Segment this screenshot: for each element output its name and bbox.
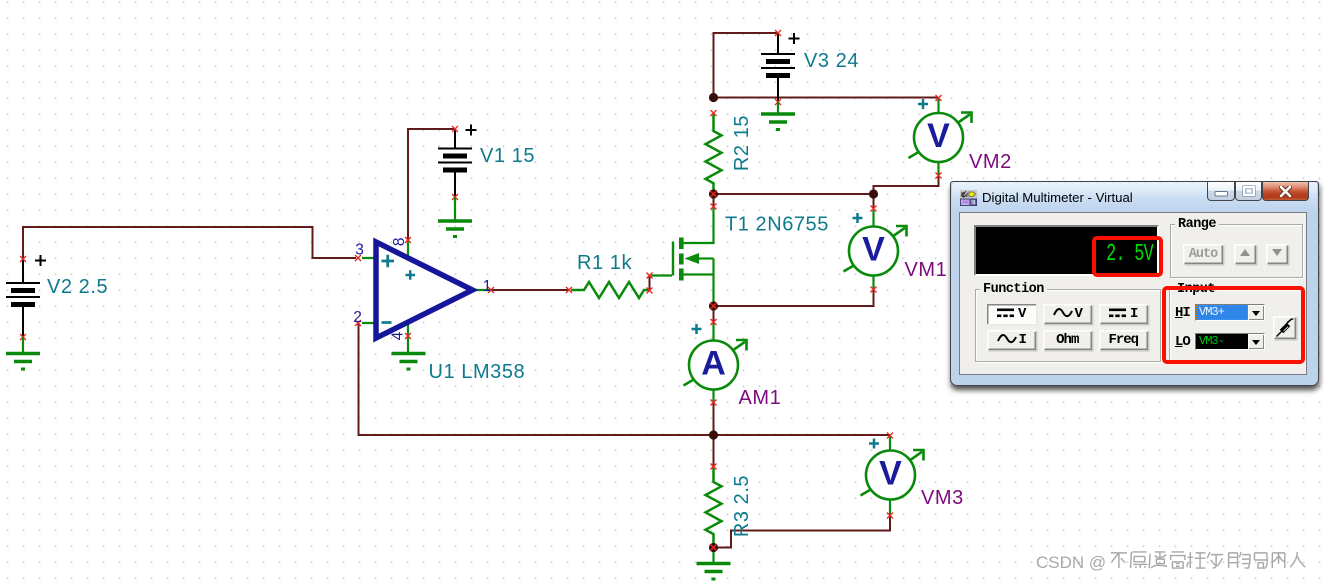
wire op-amp pin1 to R1 [491,289,569,291]
wire T1 drain to node E [713,194,715,207]
ground of U1 pin4 [392,354,426,370]
svg-text:3: 3 [355,242,364,259]
node F junction [869,189,878,198]
ground of V1 [438,197,472,237]
ground of V2 [6,337,40,369]
label T1 2N6755 [725,214,829,236]
node S junction [709,301,718,310]
svg-text:AM1: AM1 [739,387,782,409]
label R2 15 [731,115,753,171]
svg-text:R2 15: R2 15 [731,115,753,171]
svg-text:4: 4 [390,331,407,340]
svg-text:VM2: VM2 [969,151,1012,173]
label U1 LM358 [429,361,526,383]
svg-text:2: 2 [353,309,362,326]
wire node E to node F [714,193,874,195]
wire R1 to T1 gate [649,276,651,290]
label V1 15 [480,145,535,167]
ammeter AM1 [684,319,747,406]
battery V2 [6,255,46,340]
label AM1 [739,387,782,409]
label VM3 [921,487,964,509]
label V3 24 [804,50,859,72]
transistor T1 2N6755 [647,204,717,307]
svg-text:V1 15: V1 15 [480,145,535,167]
ground of V3 [761,102,795,130]
wire node D to V3 [714,33,778,98]
svg-text:8: 8 [391,237,408,246]
wire VM2 bottom to node F [874,176,939,195]
svg-text:V2 2.5: V2 2.5 [47,276,108,298]
voltmeter VM2 [909,95,972,179]
svg-text:VM3: VM3 [921,487,964,509]
wire VM1 bottom to node S [714,290,874,307]
voltmeter VM3 [861,433,924,519]
label R3 2.5 [731,475,753,537]
wire VM1 top to node F [873,194,875,209]
label R1 1k [577,252,632,274]
ground of R3 [697,548,731,580]
battery V3 [761,30,800,105]
svg-text:V: V [879,455,902,493]
node G junction [709,430,718,439]
svg-text:VM1: VM1 [905,259,948,281]
svg-text:1: 1 [483,278,492,295]
svg-text:R1 1k: R1 1k [577,252,632,274]
label VM2 [969,151,1012,173]
multimeter window Digital Multimeter - Virtual [950,181,1319,386]
wire VM3 bottom to R3 bottom [714,516,891,548]
wire node D to VM2 [714,97,939,99]
wire op-amp pin8 to V1 [408,129,454,240]
wire node G to R3 [713,435,715,467]
resistor R1 [566,282,653,298]
svg-text:U1 LM358: U1 LM358 [429,361,526,383]
node H junction [709,543,718,552]
node D junction [709,93,718,102]
wire AM1 bottom to node G [713,403,715,436]
resistor R2 [706,110,722,197]
svg-text:V3 24: V3 24 [804,50,859,72]
wire node S to AM1 top [713,306,715,322]
wire feedback rail pin2 to VM3 [359,323,891,435]
voltmeter VM1 [844,206,907,293]
svg-text:V: V [862,231,885,269]
wire V2 to op-amp pin3 [23,227,356,260]
svg-text:V: V [927,117,950,155]
label VM1 [905,259,948,281]
battery V1 [438,125,477,201]
svg-text:T1 2N6755: T1 2N6755 [725,214,829,236]
node E junction [709,189,718,198]
label V2 2.5 [47,276,108,298]
svg-text:A: A [701,345,726,383]
resistor R3 [706,464,722,548]
op-amp U1 [353,237,494,352]
svg-text:R3 2.5: R3 2.5 [731,475,753,537]
watermark [1036,546,1321,578]
